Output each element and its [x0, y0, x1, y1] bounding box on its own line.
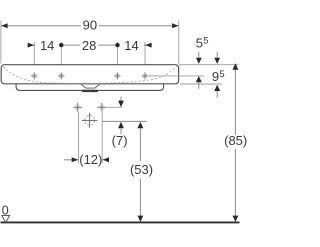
washbasin rim slab outline: [1, 65, 178, 84]
washbasin apron lower body: [16, 84, 164, 90]
svg-text:(7): (7): [112, 133, 128, 148]
dimension 53 line: [139, 128, 141, 161]
dimension 12 right outside arrow: [102, 159, 108, 161]
dimension 85 up arrow: [233, 63, 239, 69]
hole extension line 4: [144, 42, 146, 71]
dimension 12 extension line left: [78, 112, 80, 164]
tap hole 2: [58, 72, 64, 79]
dimension 5.5 down arrow: [198, 52, 200, 58]
svg-text:14: 14: [124, 38, 138, 53]
svg-text:90: 90: [83, 18, 97, 33]
dimension 90 extension line left: [0, 21, 2, 64]
hole extension line 1: [33, 42, 35, 71]
dimension 9.5 up arrow: [216, 91, 218, 98]
dimension 14 left outside arrow: [28, 44, 35, 46]
tap hole level reference line: [149, 75, 205, 77]
dimension 14 right outside arrow: [145, 44, 152, 46]
bolt hole level line: [107, 106, 122, 108]
dot terminator at hole 3: [115, 43, 119, 47]
slab bottom reference line: [180, 83, 222, 85]
dimension 12 label: [80, 153, 102, 166]
hole extension line 2: [60, 42, 62, 71]
dimension 5.5 up arrow: [198, 82, 200, 89]
dot terminator at hole 2: [59, 43, 63, 47]
rim top reference line extended right: [179, 64, 238, 66]
svg-text:(12): (12): [79, 152, 102, 167]
drain trapezoid recess: [81, 85, 99, 89]
floor line: [1, 221, 240, 223]
dimension 14-28-14 dim line: [34, 44, 145, 46]
tap hole 1: [31, 72, 37, 79]
dimension 12 extension line right: [101, 112, 103, 164]
svg-text:(85): (85): [224, 133, 247, 148]
svg-text:(53): (53): [130, 162, 153, 177]
dimension 85 down arrow: [233, 216, 239, 222]
dimension 9.5 down arrow: [216, 52, 218, 58]
tap hole 3: [114, 72, 120, 79]
dimension 85 line: [234, 65, 236, 135]
drain level line: [102, 120, 146, 122]
dimension 12 left outside arrow: [64, 159, 78, 161]
dimension 90 arrow left: [1, 23, 7, 28]
zero datum triangle: [2, 215, 10, 222]
dimension 90 extension line right: [178, 21, 180, 64]
dimension 53 down arrow: [138, 216, 144, 222]
dimension 7 down arrow: [120, 97, 122, 102]
drain waste hole dashed circle: [85, 116, 95, 126]
hole extension line 3: [116, 42, 118, 71]
tap hole 4: [142, 72, 148, 79]
svg-text:14: 14: [40, 38, 54, 53]
bolt hole left: [73, 103, 82, 112]
bolt hole right: [98, 103, 107, 112]
dimension 7 up arrow: [118, 122, 124, 129]
drain waste hole cross: [82, 113, 97, 128]
bowl hidden contour dashed: [3, 66, 177, 83]
dimension 90 arrow right: [172, 23, 178, 28]
dimension 90 label: [81, 19, 99, 32]
drain cap bar: [82, 90, 98, 92]
dimension 90 line: [1, 25, 179, 27]
dimension 53 up arrow: [138, 122, 144, 129]
svg-text:28: 28: [82, 38, 96, 53]
